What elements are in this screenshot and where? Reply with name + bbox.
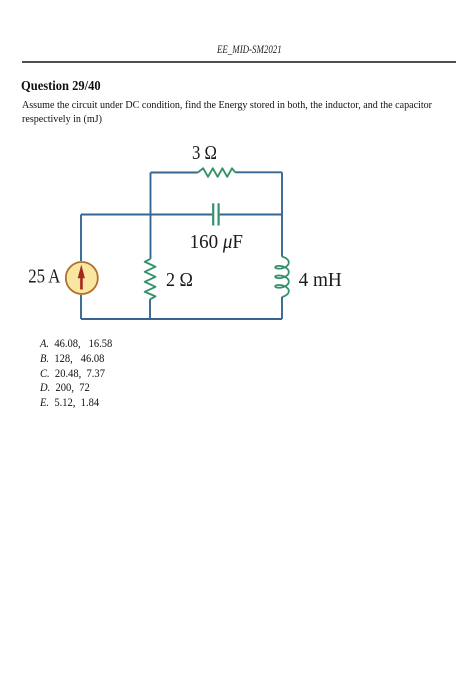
current source I1 circle xyxy=(66,262,98,294)
wire: middle horizontal, right of capacitor xyxy=(220,214,282,216)
wire: middle branch lower xyxy=(149,299,151,319)
wire: right branch lower xyxy=(281,297,283,319)
resistor R2 2 ohm (vertical zigzag) xyxy=(145,259,156,300)
header: exam title xyxy=(217,44,282,56)
svg-text:4 mH: 4 mH xyxy=(299,269,342,291)
svg-text:160 μF: 160 μF xyxy=(190,231,243,253)
wire: middle horizontal, left of capacitor xyxy=(81,214,212,216)
resistor R1 3 ohm (zigzag) xyxy=(198,168,235,177)
svg-text:3 Ω: 3 Ω xyxy=(192,142,217,164)
current source arrow (up) xyxy=(78,265,85,290)
question heading xyxy=(21,78,101,94)
horizontal rule under header xyxy=(22,61,456,63)
wire: top loop left vertical (node A to top) xyxy=(150,173,152,215)
answer options xyxy=(40,337,112,411)
wire: top horizontal left segment xyxy=(151,172,198,174)
wire: left branch bottom xyxy=(80,295,82,319)
wire: bottom horizontal xyxy=(81,318,282,320)
wire: left branch top (source to middle wire) xyxy=(80,215,82,262)
svg-text:25 A: 25 A xyxy=(28,266,61,288)
question body text xyxy=(22,99,432,127)
capacitor C1 plates xyxy=(212,203,214,225)
wire: right branch upper xyxy=(281,172,283,256)
svg-text:2 Ω: 2 Ω xyxy=(166,269,193,291)
wire: middle branch upper (crossing node to resistor) xyxy=(150,215,152,259)
wire: top horizontal right segment xyxy=(235,171,282,173)
inductor L1 4 mH coil xyxy=(275,257,289,297)
